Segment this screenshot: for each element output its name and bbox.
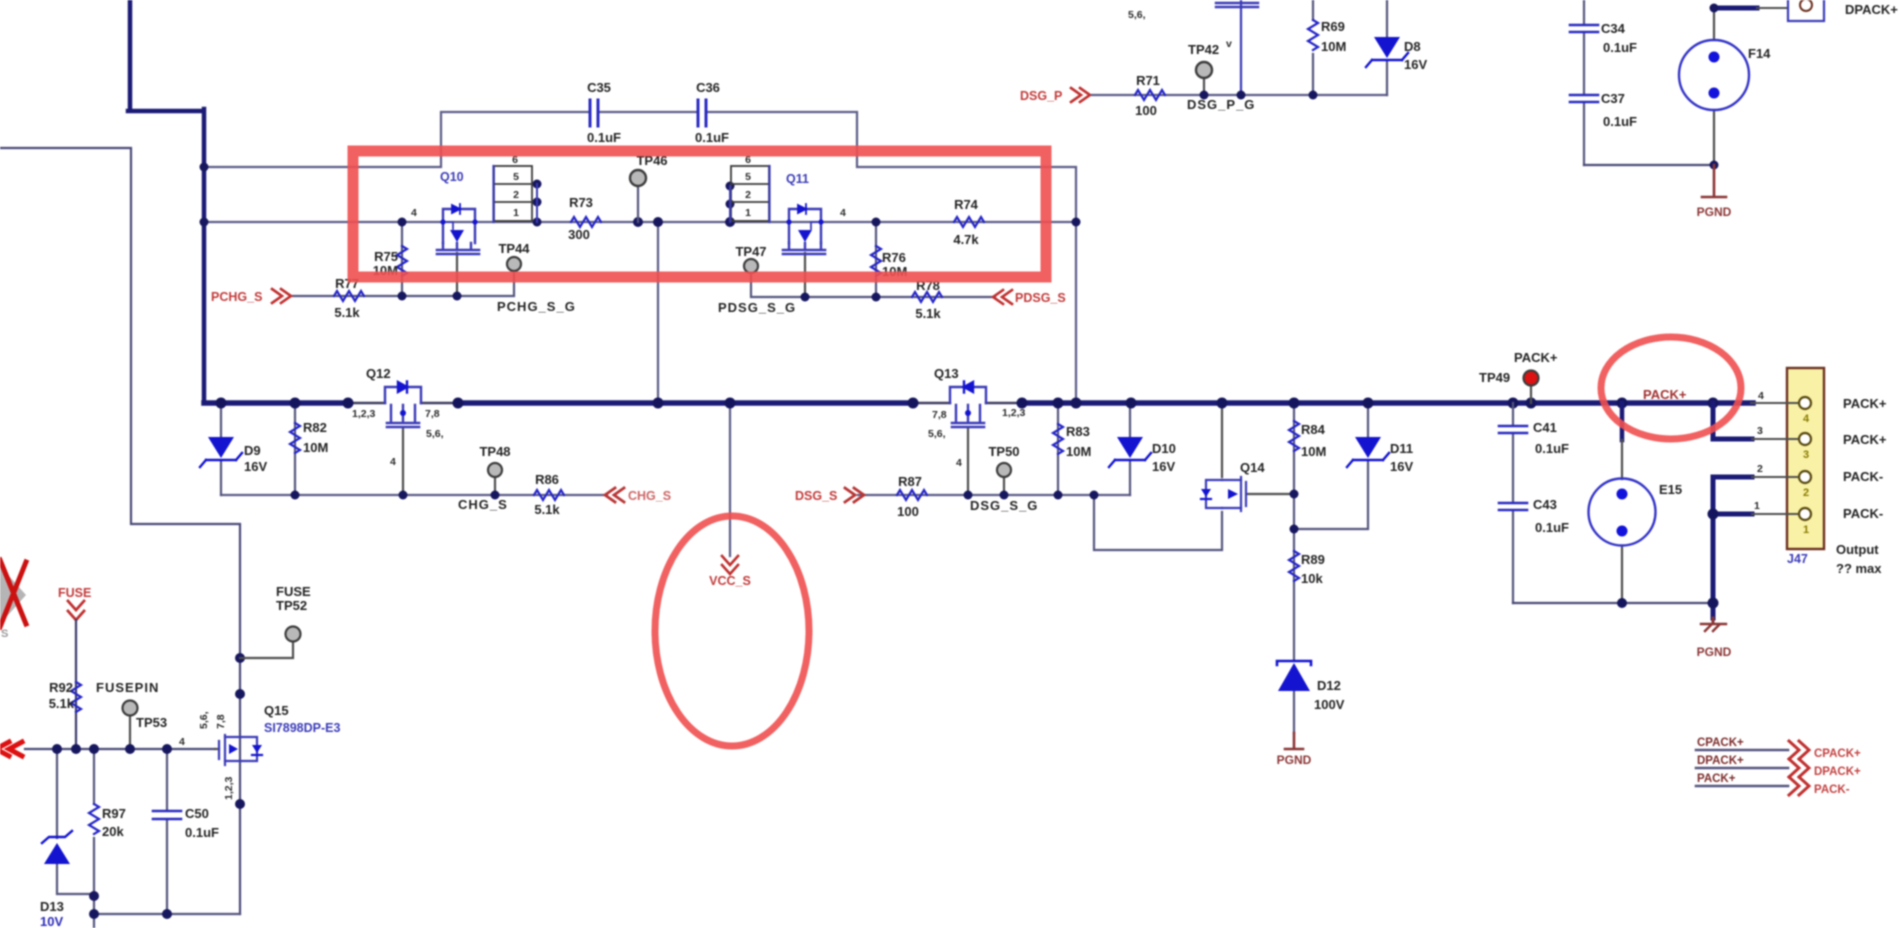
net arrow at left edge	[0, 742, 22, 756]
svg-text:PGND: PGND	[1697, 205, 1732, 219]
svg-text:PACK+: PACK+	[1514, 350, 1558, 365]
wire R83 leg	[1057, 403, 1059, 495]
transistor Q15	[215, 748, 219, 750]
svg-text:5: 5	[745, 171, 751, 183]
svg-text:100V: 100V	[1314, 697, 1345, 712]
svg-text:3: 3	[1803, 449, 1809, 461]
svg-text:DPACK+: DPACK+	[1845, 2, 1898, 17]
wire J47 pin4	[1751, 402, 1798, 404]
wire TP48 stem	[494, 477, 496, 495]
capacitor C36	[700, 106, 705, 118]
svg-text:R75: R75	[374, 249, 398, 264]
svg-text:SI7898DP-E3: SI7898DP-E3	[264, 721, 340, 735]
ground PGND below J47	[1712, 618, 1715, 622]
net arrow CHG_S	[605, 488, 624, 502]
svg-text:4: 4	[179, 736, 185, 748]
svg-text:Q15: Q15	[264, 703, 289, 718]
svg-text:FUSE: FUSE	[58, 586, 91, 600]
svg-text:0.1uF: 0.1uF	[1535, 520, 1569, 535]
wire J47 pin3	[1713, 403, 1752, 439]
zener diode D13	[57, 749, 94, 894]
svg-text:R89: R89	[1301, 552, 1325, 567]
svg-text:5.1k: 5.1k	[915, 306, 941, 321]
svg-text:DSG_P_G: DSG_P_G	[1187, 97, 1255, 112]
svg-text:1: 1	[1803, 524, 1809, 536]
svg-text:5,6,: 5,6,	[426, 428, 444, 440]
svg-text:7,8: 7,8	[425, 408, 440, 420]
svg-text:PCHG_S: PCHG_S	[211, 290, 262, 304]
svg-text:1: 1	[745, 207, 751, 219]
wire C35 C36 loop	[204, 112, 1076, 400]
svg-text:C43: C43	[1533, 497, 1557, 512]
svg-text:C41: C41	[1533, 420, 1557, 435]
wire R89 D12 leg	[1293, 529, 1295, 733]
net stub CPACK+	[1696, 749, 1788, 752]
svg-text:DPACK+: DPACK+	[1697, 755, 1744, 767]
wire Q14 gate lead	[1248, 493, 1294, 495]
testpoint TP46	[637, 185, 639, 222]
svg-text:Q12: Q12	[366, 366, 391, 381]
svg-text:10M: 10M	[1321, 39, 1346, 54]
testpoint TP48	[488, 463, 502, 477]
svg-text:R83: R83	[1066, 424, 1090, 439]
svg-text:5: 5	[513, 171, 519, 183]
transistor Q10	[437, 209, 479, 254]
off-page flag with X top-left	[0, 566, 26, 624]
ground PGND below F14	[1702, 165, 1726, 197]
transistor Q14	[1206, 477, 1246, 511]
wire VCC_S stub	[729, 403, 731, 556]
resistor R71	[1135, 90, 1165, 100]
svg-text:10M: 10M	[1301, 444, 1326, 459]
wire Q14 drain leg	[1221, 403, 1223, 477]
wire DSG_S_G row	[858, 494, 1130, 496]
svg-text:CHG_S: CHG_S	[458, 497, 508, 512]
testpoint TP42	[1203, 77, 1205, 95]
svg-text:Q14: Q14	[1240, 460, 1265, 475]
svg-text:16V: 16V	[244, 459, 267, 474]
wire D11 leg	[1294, 403, 1368, 529]
svg-text:2: 2	[1757, 463, 1763, 475]
svg-text:FUSEPIN: FUSEPIN	[96, 680, 159, 695]
junction dots DSG_P row	[1200, 91, 1318, 100]
svg-text:4: 4	[956, 457, 962, 469]
wire Q10 Q11 drain row	[204, 221, 1076, 223]
svg-text:CHG_S: CHG_S	[628, 489, 671, 503]
svg-text:4: 4	[1758, 390, 1764, 402]
svg-text:Q10: Q10	[440, 170, 464, 184]
resistor R69	[1312, 0, 1314, 95]
resistor R76	[871, 246, 881, 276]
svg-text:PCHG_S_G: PCHG_S_G	[497, 299, 576, 314]
svg-text:0.1uF: 0.1uF	[695, 130, 729, 145]
zener diode D9	[208, 437, 234, 458]
svg-text:R73: R73	[569, 195, 593, 210]
junction dots bottom left	[52, 653, 245, 919]
svg-text:R82: R82	[303, 420, 327, 435]
resistor R75	[397, 246, 407, 276]
svg-text:16V: 16V	[1152, 459, 1175, 474]
zener diode D10	[1117, 437, 1143, 458]
svg-text:1: 1	[513, 207, 519, 219]
svg-text:10M: 10M	[1066, 444, 1091, 459]
svg-text:2: 2	[513, 189, 519, 201]
svg-text:4.7k: 4.7k	[953, 232, 979, 247]
net arrow PDSG_S	[993, 290, 1012, 304]
svg-text:D10: D10	[1152, 441, 1176, 456]
J47 pin numbers inside	[1803, 413, 1810, 536]
svg-text:v: v	[1226, 38, 1232, 50]
svg-text:R92: R92	[49, 680, 73, 695]
connector J47	[1787, 368, 1824, 549]
svg-text:D12: D12	[1317, 678, 1341, 693]
svg-text:1,2,3: 1,2,3	[352, 408, 376, 420]
svg-text:PACK+: PACK+	[1697, 773, 1736, 785]
wire FUSE to R92	[75, 620, 77, 749]
svg-text:PACK-: PACK-	[1814, 784, 1850, 796]
svg-text:R69: R69	[1321, 19, 1345, 34]
svg-text:C36: C36	[696, 80, 720, 95]
junction dots on thin wires	[200, 163, 1299, 534]
svg-text:CPACK+: CPACK+	[1814, 748, 1861, 760]
svg-text:D8: D8	[1404, 39, 1421, 54]
junction dots on bus	[216, 398, 1719, 409]
svg-text:R74: R74	[954, 197, 979, 212]
svg-text:0.1uF: 0.1uF	[1603, 40, 1637, 55]
svg-text:5.1k: 5.1k	[534, 502, 560, 517]
svg-text:PACK+: PACK+	[1843, 396, 1887, 411]
svg-text:R97: R97	[102, 806, 126, 821]
wire CHG_S_G row	[221, 494, 607, 496]
resistor R86	[534, 490, 564, 500]
svg-text:0.1uF: 0.1uF	[1603, 114, 1637, 129]
svg-text:2: 2	[1803, 487, 1809, 499]
svg-text:C50: C50	[185, 806, 209, 821]
testpoint TP52	[240, 641, 293, 658]
resistor R92	[71, 682, 81, 712]
resistor R82	[290, 423, 300, 453]
svg-text:4: 4	[1803, 413, 1810, 425]
svg-text:TP44: TP44	[498, 241, 530, 256]
svg-text:DPACK+: DPACK+	[1814, 766, 1861, 778]
wire R76 leg	[875, 222, 877, 297]
svg-text:Q11: Q11	[786, 172, 809, 186]
testpoint TP47	[744, 259, 758, 273]
net stub DPACK+	[1696, 767, 1788, 770]
diode D12	[1277, 661, 1311, 665]
svg-text:0.1uF: 0.1uF	[1535, 441, 1569, 456]
pin header box Q10 pins	[494, 166, 532, 221]
wire cap bottom rail	[1513, 602, 1713, 604]
wire Q11 source stem	[804, 253, 806, 297]
svg-text:10V: 10V	[40, 914, 63, 928]
capacitor C37	[1570, 95, 1598, 102]
svg-text:F14: F14	[1748, 46, 1771, 61]
svg-text:R87: R87	[898, 474, 922, 489]
wire upper transistor stub	[1240, 0, 1242, 95]
capacitor C34	[1583, 0, 1585, 165]
wire C37 to PGND node	[1584, 164, 1714, 166]
svg-text:R76: R76	[882, 250, 906, 265]
transistor Q12	[385, 387, 421, 427]
resistor R73	[571, 217, 601, 227]
wire thick feed top-left	[128, 0, 204, 403]
svg-text:R84: R84	[1301, 422, 1326, 437]
testpoint TP44	[507, 257, 521, 271]
svg-text:PGND: PGND	[1697, 645, 1732, 659]
svg-text:FUSE: FUSE	[276, 584, 311, 599]
wire Q10 source stem	[456, 253, 458, 296]
svg-text:PDSG_S_G: PDSG_S_G	[718, 300, 796, 315]
fuse E15	[1620, 403, 1625, 440]
wire Q13 gate stem	[967, 428, 969, 495]
resistor R77	[334, 291, 364, 301]
pin header box Q11 pins	[731, 166, 769, 221]
wire Q14 source loop	[1094, 495, 1222, 550]
svg-text:4: 4	[411, 207, 417, 219]
svg-text:TP50: TP50	[988, 444, 1019, 459]
svg-text:16V: 16V	[1390, 459, 1413, 474]
svg-text:5,6,: 5,6,	[198, 711, 210, 729]
svg-text:C37: C37	[1601, 91, 1625, 106]
svg-text:2: 2	[745, 189, 751, 201]
svg-text:PACK+: PACK+	[1643, 387, 1687, 402]
annotation circle around PACK+	[1601, 337, 1741, 439]
capacitor C41	[1512, 403, 1514, 603]
connector pin top right	[1788, 0, 1824, 21]
net stub PACK+	[1696, 785, 1788, 788]
svg-text:100: 100	[897, 504, 919, 519]
svg-text:S: S	[1, 628, 8, 640]
wire D9 leg	[220, 403, 222, 495]
resistor R97	[93, 749, 95, 914]
svg-text:3: 3	[1757, 425, 1763, 437]
wire DSG_P_G row	[1092, 94, 1387, 96]
svg-text:J47: J47	[1787, 552, 1808, 566]
svg-text:5,6,: 5,6,	[928, 428, 946, 440]
svg-text:0.1uF: 0.1uF	[185, 825, 219, 840]
svg-text:Output: Output	[1836, 542, 1879, 557]
svg-text:PACK-: PACK-	[1843, 469, 1883, 484]
svg-text:20k: 20k	[102, 824, 124, 839]
svg-text:PACK-: PACK-	[1843, 506, 1883, 521]
svg-text:5.1k: 5.1k	[334, 305, 360, 320]
fuse F14	[1713, 8, 1715, 165]
svg-text:5.1k: 5.1k	[49, 696, 75, 711]
resistor R83	[1053, 424, 1063, 454]
svg-text:TP53: TP53	[136, 715, 167, 730]
svg-text:DSG_P: DSG_P	[1020, 89, 1062, 103]
transistor Q11	[783, 209, 825, 254]
svg-text:TP52: TP52	[276, 598, 307, 613]
svg-text:C34: C34	[1601, 21, 1626, 36]
testpoint TP50	[997, 463, 1011, 477]
svg-text:TP48: TP48	[479, 444, 510, 459]
wire TP50 stem	[1003, 477, 1005, 495]
svg-text:PDSG_S: PDSG_S	[1015, 291, 1066, 305]
svg-text:5,6,: 5,6,	[1128, 9, 1146, 21]
testpoint TP53	[129, 715, 131, 749]
svg-text:TP42: TP42	[1188, 42, 1219, 57]
net arrow VCC_S	[722, 556, 738, 574]
svg-text:R71: R71	[1136, 73, 1160, 88]
wire TP46 node to bus	[657, 222, 659, 403]
svg-text:C35: C35	[587, 80, 611, 95]
svg-text:DSG_S: DSG_S	[795, 489, 837, 503]
wire top DPACK feed	[1714, 6, 1757, 11]
annotation circle around VCC_S	[655, 516, 809, 746]
zener diode D8	[1386, 0, 1388, 95]
svg-text:E15: E15	[1659, 482, 1682, 497]
svg-text:D9: D9	[244, 443, 261, 458]
svg-text:300: 300	[568, 227, 590, 242]
svg-text:4: 4	[840, 207, 846, 219]
wire thin left vertical net	[0, 148, 240, 914]
svg-text:VCC_S: VCC_S	[709, 574, 751, 588]
wire bottom rail	[94, 914, 240, 928]
wire R82 leg	[294, 403, 296, 495]
svg-text:CPACK+: CPACK+	[1697, 737, 1744, 749]
annotation rectangle around Q10 Q11	[353, 151, 1046, 277]
wire bus stubs at Q12 Q13	[348, 402, 1022, 404]
svg-text:R86: R86	[535, 472, 559, 487]
wire PCHG_S_G row	[293, 271, 514, 296]
svg-text:10M: 10M	[303, 440, 328, 455]
svg-text:PACK+: PACK+	[1843, 432, 1887, 447]
svg-text:7,8: 7,8	[215, 714, 227, 729]
svg-text:10k: 10k	[1301, 571, 1323, 586]
wire PDSG_S_G row	[751, 273, 995, 297]
svg-text:D11: D11	[1390, 441, 1413, 456]
svg-text:100: 100	[1135, 103, 1157, 118]
svg-text:PGND: PGND	[1277, 753, 1312, 767]
wire R84 leg	[1293, 403, 1295, 529]
resistor R78	[912, 292, 942, 302]
resistor R89	[1289, 551, 1299, 581]
wire J47 pin2 pin1 PGND	[1713, 477, 1752, 618]
resistor R74	[954, 217, 984, 227]
wire FUSEPIN row	[25, 748, 215, 750]
transistor Q13	[950, 387, 986, 427]
testpoint TP49	[1530, 385, 1532, 403]
capacitor C50	[166, 749, 168, 914]
resistor R84	[1289, 421, 1299, 451]
svg-text:1: 1	[1754, 500, 1760, 512]
svg-text:D13: D13	[40, 899, 64, 914]
zener diode D11	[1355, 437, 1381, 458]
svg-text:16V: 16V	[1404, 57, 1427, 72]
svg-text:DSG_S_G: DSG_S_G	[970, 498, 1038, 513]
resistor R87	[897, 490, 927, 500]
capacitor C35	[592, 106, 597, 118]
svg-text:0.1uF: 0.1uF	[587, 130, 621, 145]
ground PGND below D12	[1285, 733, 1303, 749]
svg-text:1,2,3: 1,2,3	[1002, 407, 1026, 419]
svg-text:?? max: ?? max	[1836, 561, 1882, 576]
svg-text:7,8: 7,8	[932, 409, 947, 421]
svg-text:Q13: Q13	[934, 366, 959, 381]
wire Q12 gate stem	[402, 428, 404, 495]
svg-text:TP49: TP49	[1479, 370, 1510, 385]
capacitor C43	[1499, 503, 1527, 510]
svg-text:1,2,3: 1,2,3	[223, 776, 235, 800]
svg-text:4: 4	[390, 456, 396, 468]
J47 pin circles	[1799, 397, 1811, 520]
wire R75 leg	[401, 222, 403, 296]
wire main PACK+ bus	[204, 400, 1753, 406]
svg-text:TP47: TP47	[735, 244, 766, 259]
wire D10 leg	[1129, 403, 1131, 495]
